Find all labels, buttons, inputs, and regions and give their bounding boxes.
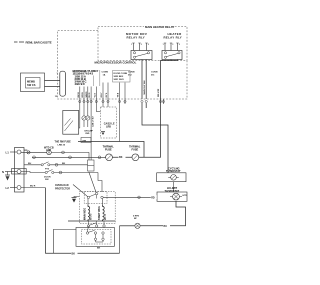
row4 wire with start switch <box>21 172 45 173</box>
svg-text:SW2 BK2: SW2 BK2 <box>114 76 125 78</box>
row2 wire <box>32 156 106 158</box>
svg-text:BK: BK <box>119 156 123 159</box>
svg-text:FUSE: FUSE <box>132 148 139 151</box>
buzzer box (dashed) <box>101 107 117 138</box>
svg-text:REML BAR CASS'TE: REML BAR CASS'TE <box>26 40 52 44</box>
timer box internal cam <box>65 121 74 132</box>
start winding L2 <box>103 205 105 221</box>
ground at N <box>7 172 9 176</box>
thermal fuse F1 <box>106 154 113 161</box>
terminal block TB1 <box>15 148 25 193</box>
diagonal wire to motor switch <box>89 172 96 193</box>
svg-text:BK-RD: BK-RD <box>91 213 93 220</box>
heater return wire <box>140 201 185 226</box>
wire row4 to motor <box>98 173 102 193</box>
board bottom connectors (plug symbols) <box>80 83 125 161</box>
relay RLY1 body <box>131 51 152 60</box>
svg-text:IND: IND <box>86 133 90 135</box>
svg-text:BU-YL: BU-YL <box>105 213 107 220</box>
svg-text:L1: L1 <box>6 151 10 155</box>
board pin table header row 1 <box>73 69 99 86</box>
centrifugal switch dashed box <box>84 192 107 204</box>
svg-text:RELAY RLY: RELAY RLY <box>127 35 146 39</box>
svg-text:THE RM FUSE: THE RM FUSE <box>55 141 72 144</box>
svg-text:DOOR CONN: DOOR CONN <box>114 73 128 75</box>
wire code labels (rotated) <box>78 91 120 98</box>
svg-text:RD HTR: RD HTR <box>158 88 160 97</box>
heater element HTR <box>173 193 180 200</box>
L2 drop wire <box>46 188 120 254</box>
svg-text:RELAY RLY: RELAY RLY <box>164 35 183 39</box>
svg-text:START WDG: START WDG <box>98 206 101 220</box>
svg-text:MAIN RLY WH: MAIN RLY WH <box>143 80 146 94</box>
winding top stubs <box>87 199 89 205</box>
svg-text:BK: BK <box>72 253 76 256</box>
svg-text:MEMB: MEMB <box>27 80 35 84</box>
svg-text:BU R: BU R <box>30 186 36 188</box>
connector circles at board edge <box>79 100 165 102</box>
svg-text:HTR: HTR <box>183 195 188 197</box>
wire membrane to connector lower <box>45 86 60 88</box>
hi-limit thermostat box <box>157 192 187 201</box>
svg-text:CAB LT BU: CAB LT BU <box>92 116 95 127</box>
svg-text:CONN: CONN <box>102 72 109 74</box>
svg-text:FUSE: FUSE <box>105 148 112 151</box>
wire motor to left loop <box>53 230 76 254</box>
svg-text:RD: RD <box>151 197 155 200</box>
motor cross wire <box>68 220 115 222</box>
relay RLY1 output wires <box>141 60 143 100</box>
svg-text:LRB: LRB <box>106 125 111 128</box>
motor ground <box>74 197 79 198</box>
wire between fuses <box>112 156 132 158</box>
svg-text:SW1 WH1: SW1 WH1 <box>114 79 125 81</box>
wire relay1 to cycling tstat <box>142 103 168 173</box>
svg-text:L2: L2 <box>6 186 10 190</box>
svg-text:MAIN HEATER RELAY: MAIN HEATER RELAY <box>145 25 174 29</box>
relay RLY2 pin stubs <box>164 43 166 51</box>
ribbon connector P1 <box>60 71 66 96</box>
return line component <box>135 223 140 228</box>
svg-text:PROTECTOR: PROTECTOR <box>55 188 70 191</box>
heater return riser <box>119 226 121 254</box>
wire membrane to connector upper <box>45 80 60 82</box>
timer box T1 <box>63 111 79 135</box>
relay RLY2 contact <box>164 52 166 54</box>
heater feed wire RD <box>103 196 157 198</box>
svg-text:MICROPROCESSOR CONTROL: MICROPROCESSOR CONTROL <box>95 60 137 64</box>
svg-text:DR LMP: DR LMP <box>85 131 94 133</box>
indicator lamp DS2 <box>87 121 89 128</box>
svg-text:N: N <box>2 170 4 174</box>
wire cycling to hi-limit <box>173 182 175 192</box>
svg-text:CONN: CONN <box>128 72 135 74</box>
cabinet lamp <box>47 150 52 155</box>
cycling thermostat symbol <box>171 175 177 181</box>
svg-text:PTS: PTS <box>45 168 50 170</box>
wire row1 down to connector box <box>88 152 90 160</box>
upper contact row <box>87 225 89 227</box>
wire hook into buzzer box <box>96 111 100 113</box>
board pin table rules <box>92 76 94 87</box>
heater return wire left part <box>120 225 135 227</box>
microprocessor control label <box>94 60 136 65</box>
ground in buzzer box <box>101 131 105 133</box>
svg-text:TH'MOSTAT: TH'MOSTAT <box>165 189 180 193</box>
motor switch dashed box <box>81 230 111 244</box>
relay RLY1 pin stubs <box>133 43 135 51</box>
L1 feed wire <box>21 151 47 153</box>
note: wiring diagram cassette leader line <box>14 41 18 43</box>
line splice connector <box>27 151 30 154</box>
svg-text:RD: RD <box>25 150 29 152</box>
long bus wire <box>78 142 144 158</box>
svg-text:DOOR: DOOR <box>44 177 51 179</box>
svg-text:BK: BK <box>62 163 66 165</box>
thermal cutoff F2 <box>132 154 139 161</box>
motor switch contacts lower <box>86 232 88 234</box>
centrifugal switch contacts <box>87 196 89 198</box>
L2 feed wire <box>21 187 45 189</box>
indicator lamp DS1 <box>83 120 85 127</box>
winding bottom stubs <box>87 220 89 221</box>
svg-text:LRB 20: LRB 20 <box>58 144 66 146</box>
main heater relay dashed box <box>98 27 187 61</box>
relay RLY2 stub wire 2 <box>163 99 165 104</box>
svg-text:BU: BU <box>28 163 32 165</box>
terminal N plate <box>12 169 27 175</box>
cycling thermostat box <box>157 173 186 182</box>
relay RLY1 contact <box>133 52 135 54</box>
lamp row wire <box>51 151 89 153</box>
svg-text:MAIN WDG: MAIN WDG <box>84 208 87 220</box>
svg-text:BU: BU <box>164 225 168 228</box>
svg-text:BK: BK <box>97 248 101 250</box>
wire overload to centrifugal switch <box>73 185 88 197</box>
door conn label box <box>113 71 131 83</box>
motor switch solid enclosure <box>76 228 114 247</box>
svg-text:CONN: CONN <box>151 72 158 74</box>
bus small box <box>81 138 91 143</box>
svg-text:4 BU 9 D: 4 BU 9 D <box>75 82 85 86</box>
console right connector box <box>88 160 95 171</box>
microprocessor control board (dashed box) <box>58 31 188 100</box>
membrane switch S1 inner box <box>26 78 41 89</box>
connector pins crossing board edge <box>79 87 81 129</box>
relay RLY2 output wire path <box>139 60 178 158</box>
row3 wire with door switch <box>24 164 41 166</box>
relay RLY2 body <box>162 51 182 60</box>
motor M1 dashed box <box>79 192 115 224</box>
main winding L1 <box>88 205 90 221</box>
wire hook into timer box <box>79 127 80 129</box>
svg-text:SW CS: SW CS <box>27 83 36 87</box>
main heater relay label <box>144 24 172 29</box>
svg-text:1A: 1A <box>103 73 106 76</box>
svg-text:LRB: LRB <box>82 140 87 142</box>
membrane switch S1 outer box <box>21 73 45 92</box>
